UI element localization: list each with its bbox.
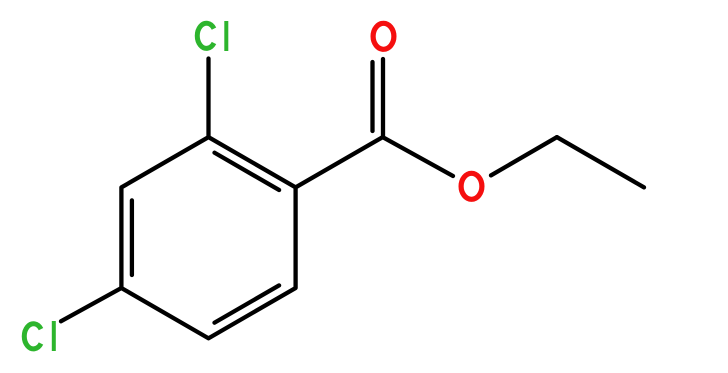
double bond inner line C5=C6	[215, 285, 280, 322]
bond C7=O top main line	[381, 59, 385, 137]
bond C8-C9 ethyl terminal	[557, 137, 644, 187]
bond C4-Cl2	[61, 288, 121, 321]
double bond inner line C3=C4	[130, 200, 134, 275]
label Cl1 : C glyph	[197, 23, 214, 48]
bond C7=O top second line	[370, 62, 374, 131]
bond C2-Cl1	[206, 59, 210, 138]
bond C1-C7	[296, 137, 383, 187]
bond C7-O ester	[383, 137, 453, 176]
bond O ester-C8	[491, 137, 557, 175]
label Cl1 : l glyph	[224, 21, 228, 51]
benzene ring C1-C2-C3-C4-C5-C6	[121, 137, 295, 338]
label O ester	[461, 173, 482, 199]
label Cl2 : C glyph	[24, 324, 41, 349]
label Cl2 : l glyph	[52, 321, 56, 351]
label O top	[373, 23, 394, 49]
double bond inner line C1=C2	[215, 153, 280, 190]
